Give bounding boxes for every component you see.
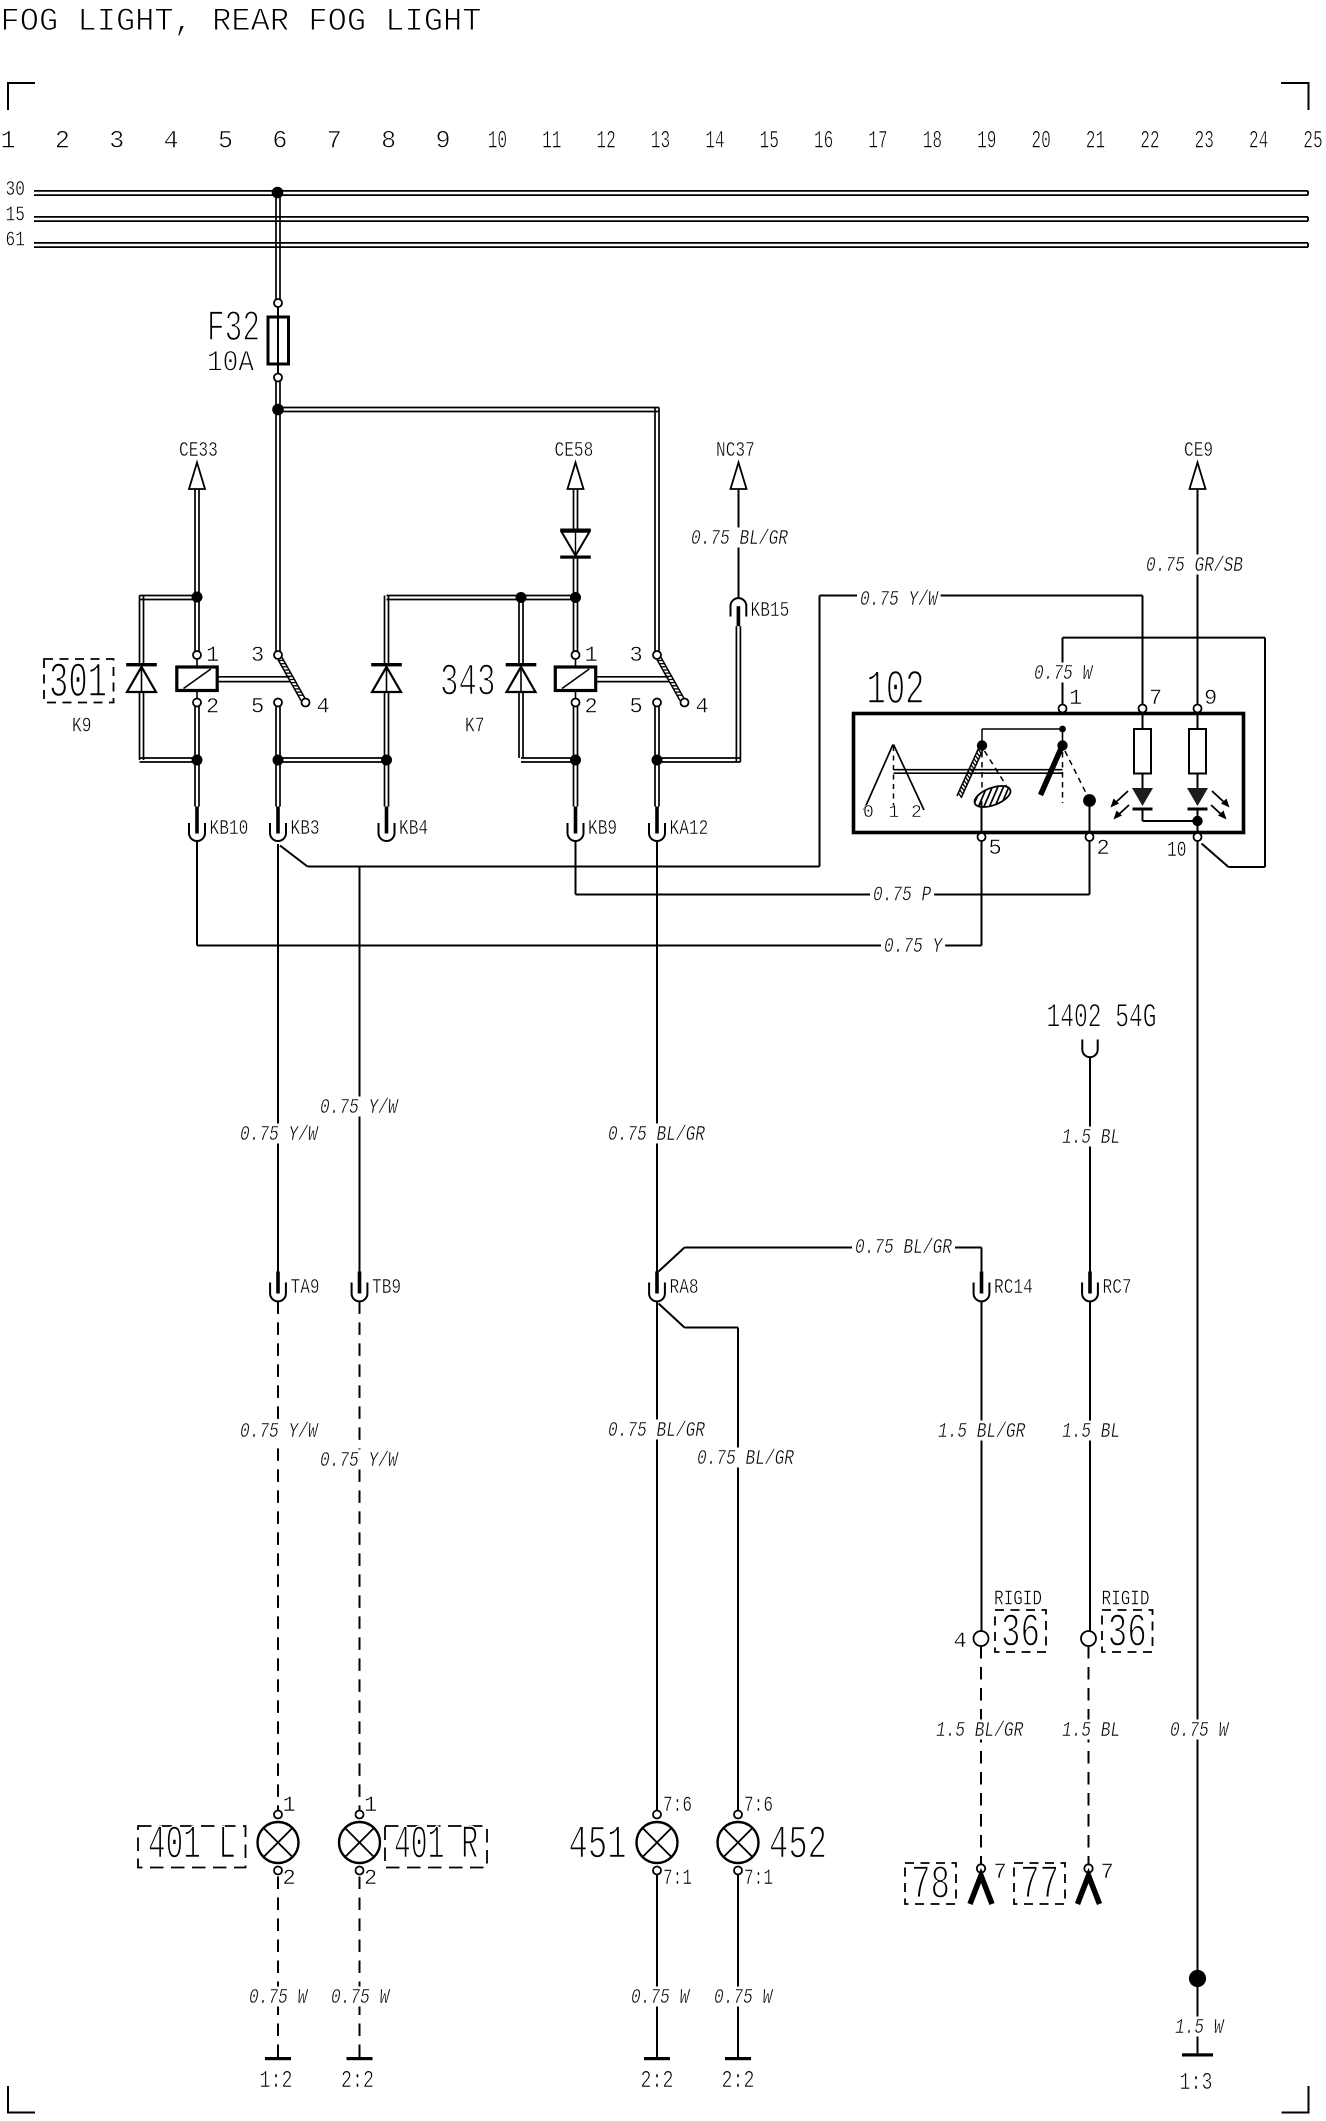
ruler column numbers 1-25 bbox=[0, 127, 1322, 156]
wire label 0.75 Y/W (TA9 feed) bbox=[237, 1124, 321, 1148]
LED left bbox=[1132, 788, 1153, 821]
svg-text:22: 22 bbox=[1140, 127, 1159, 156]
wire pivots to pin 1 bbox=[982, 726, 1066, 746]
resistor for tell-tale LED left bbox=[1134, 713, 1151, 789]
svg-text:0.75 BL/GR: 0.75 BL/GR bbox=[697, 1448, 794, 1471]
switch contact b end dot bbox=[1083, 794, 1096, 807]
svg-text:K9: K9 bbox=[72, 716, 91, 739]
svg-text:0.75 Y/W: 0.75 Y/W bbox=[320, 1450, 399, 1473]
svg-text:451: 451 bbox=[569, 1820, 627, 1873]
svg-text:401 L: 401 L bbox=[148, 1820, 236, 1873]
wire fuse output bbox=[276, 382, 280, 410]
title: FOG LIGHT, REAR FOG LIGHT bbox=[1, 3, 482, 40]
svg-text:5: 5 bbox=[218, 127, 233, 156]
relay K7 contact blade bbox=[657, 657, 684, 700]
pin 9 label 102 bbox=[1204, 686, 1217, 711]
wire TA9 to lamp 401L (dashed) bbox=[277, 1301, 279, 1810]
svg-text:3: 3 bbox=[109, 127, 124, 156]
wire KB3 node to connector bbox=[276, 760, 280, 807]
mechanical link in switch bbox=[894, 770, 1063, 774]
svg-text:CE33: CE33 bbox=[179, 440, 218, 463]
svg-text:7:6: 7:6 bbox=[663, 1793, 692, 1818]
switch contact a pivot bbox=[977, 740, 987, 750]
svg-text:1.5 BL/GR: 1.5 BL/GR bbox=[938, 1421, 1026, 1444]
wire RC7 to rigid pin bbox=[1089, 1301, 1091, 1631]
wire label 0.75 Y/W (switch feed) bbox=[857, 589, 941, 613]
wire contact b to pin 2 bbox=[1089, 801, 1091, 834]
component label 343 bbox=[440, 658, 496, 709]
svg-text:7: 7 bbox=[994, 1860, 1007, 1885]
wire K9 coil pin2 down bbox=[195, 707, 199, 761]
svg-text:30: 30 bbox=[6, 179, 25, 202]
svg-text:0.75 P: 0.75 P bbox=[873, 885, 931, 908]
wire KB3 node to KB4 node bbox=[278, 758, 387, 762]
pin 2 label 102 bbox=[1097, 836, 1110, 861]
svg-text:16: 16 bbox=[814, 127, 833, 156]
junction K7 coil top node bbox=[570, 592, 581, 603]
wire pin 1 feed 0.75 W bbox=[1063, 638, 1266, 867]
svg-text:401 R: 401 R bbox=[394, 1820, 478, 1873]
wire splice to ground 1:3 bbox=[1197, 1987, 1199, 2053]
connector KB9 bbox=[568, 807, 618, 842]
bus bar 61 bbox=[34, 243, 1308, 247]
svg-text:4: 4 bbox=[317, 695, 330, 720]
svg-text:10: 10 bbox=[488, 127, 507, 156]
frame corner bottom-right bbox=[1282, 2086, 1309, 2113]
frame corner top-left bbox=[8, 83, 35, 110]
svg-text:CE9: CE9 bbox=[1184, 440, 1213, 463]
wire lamp 452 to ground bbox=[737, 1875, 739, 2058]
wire pin 10 down (0.75 W) bbox=[1197, 841, 1199, 1970]
switch contact b blade bbox=[1041, 744, 1064, 795]
wire label 0.75 BL/GR (RA8 feed) bbox=[605, 1124, 708, 1148]
pin labels lamp 401R bbox=[364, 1793, 377, 1891]
svg-text:343: 343 bbox=[440, 658, 496, 709]
svg-text:13: 13 bbox=[651, 127, 670, 156]
connector KB3 bbox=[270, 807, 320, 842]
wire K9 diode to coil pin2 node bbox=[140, 692, 198, 762]
junction K9 coil top node bbox=[192, 592, 203, 603]
junction diode2 top node bbox=[516, 592, 527, 603]
svg-text:0.75 W: 0.75 W bbox=[1034, 663, 1094, 686]
splice connector at 77 bbox=[1078, 1860, 1114, 1904]
switch pins bbox=[978, 705, 1202, 842]
wire K7 diode1 down to KB4 node bbox=[385, 692, 389, 760]
wire CE9 to switch pin 9 bbox=[1197, 489, 1199, 705]
resistor for tell-tale LED right bbox=[1189, 713, 1206, 789]
svg-text:KB9: KB9 bbox=[588, 818, 617, 841]
junction KB4 node bbox=[381, 755, 392, 766]
svg-text:8: 8 bbox=[381, 127, 396, 156]
connector KA12 bbox=[649, 807, 708, 842]
wire lamp 401R to ground (dashed) bbox=[359, 1875, 361, 2058]
wire KB15 down to KA12 node bbox=[657, 626, 740, 762]
LED left emission arrows bbox=[1111, 791, 1130, 820]
bus bar 15 bbox=[34, 217, 1308, 221]
junction fuse output node bbox=[272, 404, 284, 416]
svg-text:7: 7 bbox=[1101, 1860, 1114, 1885]
pin 2 label K9 bbox=[206, 695, 219, 720]
connector TA9 bbox=[270, 1272, 320, 1302]
svg-text:1: 1 bbox=[364, 1793, 377, 1818]
svg-text:24: 24 bbox=[1249, 127, 1268, 156]
splice 1.5 W bbox=[1189, 1970, 1206, 1987]
svg-text:452: 452 bbox=[769, 1820, 827, 1873]
pin 2 label K7 bbox=[585, 695, 598, 720]
svg-text:0.75 BL/GR: 0.75 BL/GR bbox=[608, 1420, 705, 1443]
svg-text:2: 2 bbox=[585, 695, 598, 720]
relay K7 reference label bbox=[465, 716, 484, 739]
svg-text:1: 1 bbox=[889, 803, 900, 823]
svg-text:5: 5 bbox=[630, 695, 643, 720]
component 36 left (RIGID) bbox=[994, 1589, 1046, 1661]
svg-text:0.75 Y: 0.75 Y bbox=[884, 936, 943, 959]
svg-text:2: 2 bbox=[55, 127, 70, 156]
svg-text:23: 23 bbox=[1195, 127, 1214, 156]
wire label 1.5 BL (RC7 feed) bbox=[1059, 1127, 1123, 1151]
wire KB3 to TA9 bbox=[277, 844, 279, 1273]
LED right bbox=[1187, 788, 1208, 833]
svg-text:RC7: RC7 bbox=[1103, 1277, 1132, 1300]
connector RC14 bbox=[974, 1272, 1033, 1302]
junction on bus 30 bbox=[272, 187, 284, 199]
relay K9 coil bbox=[177, 651, 217, 707]
wire KA12 node to connector bbox=[655, 760, 659, 807]
svg-text:RC14: RC14 bbox=[994, 1277, 1033, 1300]
svg-text:K7: K7 bbox=[465, 716, 484, 739]
wire RA8 branch to RC14 bbox=[659, 1248, 982, 1273]
wire label 0.75 Y/W (401L) bbox=[237, 1421, 321, 1445]
LED right emission arrows bbox=[1211, 791, 1230, 820]
pin 5 label K7 bbox=[630, 695, 643, 720]
pin 1 label K7 bbox=[585, 643, 598, 668]
svg-text:CE58: CE58 bbox=[555, 440, 594, 463]
ground 2:2 (401R) bbox=[341, 2057, 374, 2095]
diode of relay K9 bbox=[126, 663, 157, 692]
svg-text:78: 78 bbox=[911, 1860, 950, 1913]
svg-text:0.75 BL/GR: 0.75 BL/GR bbox=[855, 1237, 952, 1260]
svg-text:1: 1 bbox=[283, 1793, 296, 1818]
ground 2:2 (452) bbox=[722, 2057, 755, 2095]
rear fog lamp 452 bbox=[718, 1811, 759, 1875]
wire KB10 node to connector bbox=[195, 760, 199, 807]
frame corner top-right bbox=[1281, 83, 1309, 110]
wire label 0.75 BL/GR (branch) bbox=[852, 1237, 955, 1261]
svg-text:4: 4 bbox=[954, 1629, 967, 1654]
wire TB9 to lamp 401R (dashed) bbox=[359, 1301, 361, 1810]
svg-text:0.75 Y/W: 0.75 Y/W bbox=[320, 1097, 399, 1120]
node CE33 bbox=[179, 440, 218, 489]
wire label 0.75 Y bbox=[881, 936, 945, 960]
svg-text:77: 77 bbox=[1020, 1860, 1059, 1913]
wire 1402 to RC7 bbox=[1089, 1057, 1091, 1272]
svg-text:1: 1 bbox=[585, 643, 598, 668]
switch contact a blade bbox=[957, 743, 985, 798]
wire KB9 to 0.75 P bbox=[575, 841, 577, 895]
svg-text:12: 12 bbox=[596, 127, 615, 156]
svg-text:15: 15 bbox=[760, 127, 779, 156]
junction LED cathode node bbox=[1192, 816, 1202, 826]
pin 5 label 102 bbox=[989, 836, 1002, 861]
svg-text:7:1: 7:1 bbox=[663, 1866, 692, 1891]
connector KB15 bbox=[731, 598, 790, 626]
bus label 61 bbox=[6, 230, 25, 253]
svg-text:10A: 10A bbox=[207, 347, 254, 381]
connector RA8 bbox=[649, 1272, 699, 1302]
svg-text:1.5 W: 1.5 W bbox=[1175, 2017, 1225, 2040]
junction KB3 node bbox=[273, 755, 284, 766]
svg-text:36: 36 bbox=[1108, 1608, 1147, 1661]
wire label 0.75 W (lamp feed) bbox=[1167, 1720, 1231, 1744]
svg-text:5: 5 bbox=[251, 695, 264, 720]
svg-text:6: 6 bbox=[272, 127, 287, 156]
svg-text:2:2: 2:2 bbox=[722, 2068, 755, 2095]
wire label 0.75 W (451) bbox=[628, 1987, 692, 2011]
wire KB3 branch to TB9 and switch pin 7 bbox=[280, 596, 820, 867]
wire K7 node to coil pin 1 bbox=[574, 597, 578, 651]
wire K9 node to coil pin 1 bbox=[195, 597, 199, 651]
svg-text:0.75 W: 0.75 W bbox=[714, 1987, 774, 2010]
relay K7 contact pins 3/4/5 bbox=[653, 651, 689, 707]
svg-text:9: 9 bbox=[435, 127, 450, 156]
wire K9 pin5 down bbox=[276, 707, 280, 761]
svg-text:5: 5 bbox=[989, 836, 1002, 861]
switch contact a dashed travel bbox=[982, 751, 1007, 800]
wire TB9 feed bbox=[359, 867, 361, 1273]
rear fog lamp 451 bbox=[637, 1811, 678, 1875]
diode 2 of relay K7 bbox=[506, 663, 537, 692]
component label 102 bbox=[867, 664, 925, 718]
svg-text:2: 2 bbox=[1097, 836, 1110, 861]
svg-text:0.75 Y/W: 0.75 Y/W bbox=[240, 1421, 319, 1444]
switch contact a pad bbox=[966, 782, 1017, 812]
pin labels lamp 452 bbox=[744, 1793, 773, 1891]
connector TB9 bbox=[352, 1272, 402, 1302]
junction K9 pin2 node bbox=[192, 755, 203, 766]
svg-text:2:2: 2:2 bbox=[341, 2068, 374, 2095]
wire 0.75 P to light switch pin 2 bbox=[576, 841, 1090, 895]
svg-text:36: 36 bbox=[1001, 1608, 1040, 1661]
svg-text:1.5 BL: 1.5 BL bbox=[1062, 1127, 1120, 1150]
wire lamp 451 to ground bbox=[656, 1875, 658, 2058]
connector KB10 bbox=[189, 807, 248, 842]
svg-text:KB15: KB15 bbox=[751, 600, 790, 623]
svg-text:NC37: NC37 bbox=[716, 440, 755, 463]
wire bus30 to fuse F32 bbox=[276, 193, 280, 299]
svg-text:61: 61 bbox=[6, 230, 25, 253]
svg-text:1: 1 bbox=[0, 127, 15, 156]
frame corner bottom-left bbox=[8, 2086, 35, 2113]
wire label 0.75 BL/GR (452 feed) bbox=[694, 1448, 797, 1472]
light switch 102 body bbox=[854, 714, 1244, 833]
svg-text:TA9: TA9 bbox=[291, 1277, 320, 1300]
svg-text:14: 14 bbox=[705, 127, 724, 156]
svg-text:7: 7 bbox=[1149, 686, 1162, 711]
fog lamp 401 left bbox=[258, 1811, 299, 1875]
pin 4 label K9 bbox=[317, 695, 330, 720]
wire K7 coil pin2 down bbox=[574, 707, 578, 761]
svg-text:2: 2 bbox=[911, 803, 922, 823]
relay K9 reference label bbox=[72, 716, 91, 739]
svg-text:0.75 Y/W: 0.75 Y/W bbox=[860, 589, 939, 612]
svg-text:4: 4 bbox=[164, 127, 179, 156]
svg-text:1:3: 1:3 bbox=[1180, 2070, 1213, 2097]
wire label 0.75 BL/GR (451 feed) bbox=[605, 1420, 708, 1444]
pin 1 label K9 bbox=[206, 643, 219, 668]
svg-text:102: 102 bbox=[867, 664, 925, 718]
wire fuse node down to relay K9 pin 3 bbox=[276, 410, 280, 652]
mechanical link K7 coil to contact bbox=[596, 677, 669, 682]
svg-text:FOG LIGHT, REAR FOG LIGHT: FOG LIGHT, REAR FOG LIGHT bbox=[1, 3, 482, 40]
svg-text:2:2: 2:2 bbox=[641, 2068, 674, 2095]
svg-text:25: 25 bbox=[1303, 127, 1322, 156]
wire KB4 node to connector bbox=[385, 760, 389, 807]
svg-text:18: 18 bbox=[923, 127, 942, 156]
relay K9 contact blade bbox=[278, 657, 305, 700]
svg-text:4: 4 bbox=[696, 695, 709, 720]
pin labels lamp 451 bbox=[663, 1793, 692, 1891]
component box 77 bbox=[1014, 1860, 1065, 1913]
wire 0.75 Y/W to light switch pin 7 bbox=[820, 596, 1143, 705]
switch position indicator bbox=[863, 745, 924, 824]
wire lamp 401L to ground (dashed) bbox=[277, 1875, 279, 2058]
ground 2:2 (451) bbox=[641, 2057, 674, 2095]
wire K9 node to diode branch bbox=[140, 596, 198, 664]
fuse F32 10A bbox=[207, 299, 289, 382]
component label 451 bbox=[569, 1820, 627, 1873]
svg-text:TB9: TB9 bbox=[372, 1277, 401, 1300]
wire label 0.75 P bbox=[870, 884, 934, 908]
svg-text:10: 10 bbox=[1167, 838, 1186, 863]
svg-text:2: 2 bbox=[206, 695, 219, 720]
node NC37 bbox=[716, 440, 755, 489]
rigid pin 4 circle left bbox=[954, 1629, 989, 1654]
pin labels lamp 401L bbox=[283, 1793, 296, 1891]
wire label 0.75 Y/W (TB9 feed) bbox=[317, 1097, 401, 1121]
wire K7 top horizontal (diode1, diode2, coil) bbox=[385, 596, 576, 664]
switch contact b dashed travel bbox=[1063, 751, 1088, 803]
fog lamp 401 right bbox=[339, 1811, 380, 1875]
svg-text:2: 2 bbox=[283, 1866, 296, 1891]
svg-text:0.75 W: 0.75 W bbox=[631, 1987, 691, 2010]
svg-text:20: 20 bbox=[1031, 127, 1050, 156]
bus label 15 bbox=[6, 205, 25, 228]
pin 5 label K9 bbox=[251, 695, 264, 720]
svg-text:1.5 BL: 1.5 BL bbox=[1062, 1720, 1120, 1743]
pin 4 label K7 bbox=[696, 695, 709, 720]
node 1402 54G bbox=[1047, 1000, 1157, 1058]
wire label 0.75 BL/GR (NC37) bbox=[688, 528, 791, 552]
svg-text:0.75 BL/GR: 0.75 BL/GR bbox=[608, 1124, 705, 1147]
svg-text:19: 19 bbox=[977, 127, 996, 156]
pin 3 label K7 bbox=[630, 643, 643, 668]
svg-text:3: 3 bbox=[251, 643, 264, 668]
wire rigid left to splice 78 bbox=[980, 1646, 982, 1864]
pin 1 label 102 bbox=[1069, 686, 1082, 711]
wire KB9 node to connector bbox=[574, 760, 578, 807]
svg-text:1: 1 bbox=[206, 643, 219, 668]
wire diode to K7 coil node bbox=[574, 559, 578, 597]
wire pad to pin 5 bbox=[981, 801, 983, 833]
junction KB9 node bbox=[570, 755, 581, 766]
wire LED left to pin 10 node bbox=[1143, 820, 1198, 822]
svg-text:2: 2 bbox=[364, 1866, 377, 1891]
connector KB4 bbox=[379, 807, 429, 842]
svg-text:7:1: 7:1 bbox=[744, 1866, 773, 1891]
ground 1:2 bbox=[260, 2057, 293, 2095]
svg-text:KB10: KB10 bbox=[210, 818, 249, 841]
wire KA12 to RA8 bbox=[656, 841, 658, 1273]
rigid pin circle right bbox=[1081, 1631, 1096, 1646]
svg-text:1: 1 bbox=[1069, 686, 1082, 711]
wire RC14 to rigid pin 4 bbox=[981, 1301, 983, 1631]
mechanical link K9 coil to contact bbox=[218, 677, 291, 682]
wire KB10 to 0.75 Y line bbox=[196, 841, 198, 946]
wire label 1.5 BL/GR (rigid left) bbox=[933, 1720, 1026, 1744]
svg-text:1.5 BL: 1.5 BL bbox=[1062, 1421, 1120, 1444]
svg-text:0.75 GR/SB: 0.75 GR/SB bbox=[1146, 555, 1243, 578]
node CE9 bbox=[1184, 440, 1213, 489]
bus bar 30 bbox=[34, 191, 1308, 195]
wire NC37 down to KB15 bbox=[738, 489, 740, 598]
svg-text:1.5 BL/GR: 1.5 BL/GR bbox=[936, 1720, 1024, 1743]
component label 452 bbox=[769, 1820, 827, 1873]
bus label 30 bbox=[6, 179, 25, 202]
svg-text:17: 17 bbox=[868, 127, 887, 156]
wire label 0.75 W (401R) bbox=[328, 1987, 392, 2011]
svg-text:0.75 W: 0.75 W bbox=[1170, 1720, 1230, 1743]
svg-text:11: 11 bbox=[542, 127, 561, 156]
wire label 0.75 W (452) bbox=[711, 1987, 775, 2011]
svg-text:7: 7 bbox=[327, 127, 342, 156]
component box 78 bbox=[905, 1860, 956, 1913]
svg-text:7:6: 7:6 bbox=[744, 1793, 773, 1818]
component box 401 R bbox=[385, 1820, 487, 1873]
wire label 1.5 BL (rigid right) bbox=[1059, 1720, 1123, 1744]
svg-text:9: 9 bbox=[1204, 686, 1217, 711]
node CE58 bbox=[555, 440, 594, 489]
wire label 1.5 BL (RC7) bbox=[1059, 1421, 1123, 1445]
ground 1:3 bbox=[1180, 2053, 1214, 2097]
pin 10 label 102 bbox=[1167, 838, 1186, 863]
svg-text:KB4: KB4 bbox=[399, 818, 428, 841]
wire RA8 to lamp 451 bbox=[656, 1301, 658, 1810]
svg-text:0.75 BL/GR: 0.75 BL/GR bbox=[691, 528, 788, 551]
svg-text:21: 21 bbox=[1086, 127, 1105, 156]
series diode below CE58 bbox=[560, 529, 591, 559]
svg-text:1:2: 1:2 bbox=[260, 2068, 293, 2095]
svg-text:301: 301 bbox=[49, 655, 107, 711]
splice connector at 78 bbox=[970, 1860, 1007, 1904]
svg-text:3: 3 bbox=[630, 643, 643, 668]
svg-text:1402 54G: 1402 54G bbox=[1047, 1000, 1157, 1038]
connector RC7 bbox=[1082, 1272, 1132, 1302]
wire K7 pin5 down bbox=[655, 707, 659, 761]
diode 1 of relay K7 bbox=[371, 663, 402, 692]
switch contact b pivot bbox=[1057, 740, 1067, 750]
wire RA8 branch to lamp 452 bbox=[659, 1304, 739, 1811]
svg-text:15: 15 bbox=[6, 205, 25, 228]
wire CE58 to diode bbox=[574, 489, 578, 529]
wire CE33 to K9 bbox=[195, 489, 199, 597]
svg-text:0.75 Y/W: 0.75 Y/W bbox=[240, 1124, 319, 1147]
pin 7 label 102 bbox=[1149, 686, 1162, 711]
svg-text:0.75 W: 0.75 W bbox=[331, 1987, 391, 2010]
wire rigid right to splice 77 bbox=[1088, 1646, 1090, 1864]
svg-text:0.75 W: 0.75 W bbox=[249, 1987, 309, 2010]
wire label 0.75 GR/SB bbox=[1143, 555, 1246, 579]
pin 3 label K9 bbox=[251, 643, 264, 668]
